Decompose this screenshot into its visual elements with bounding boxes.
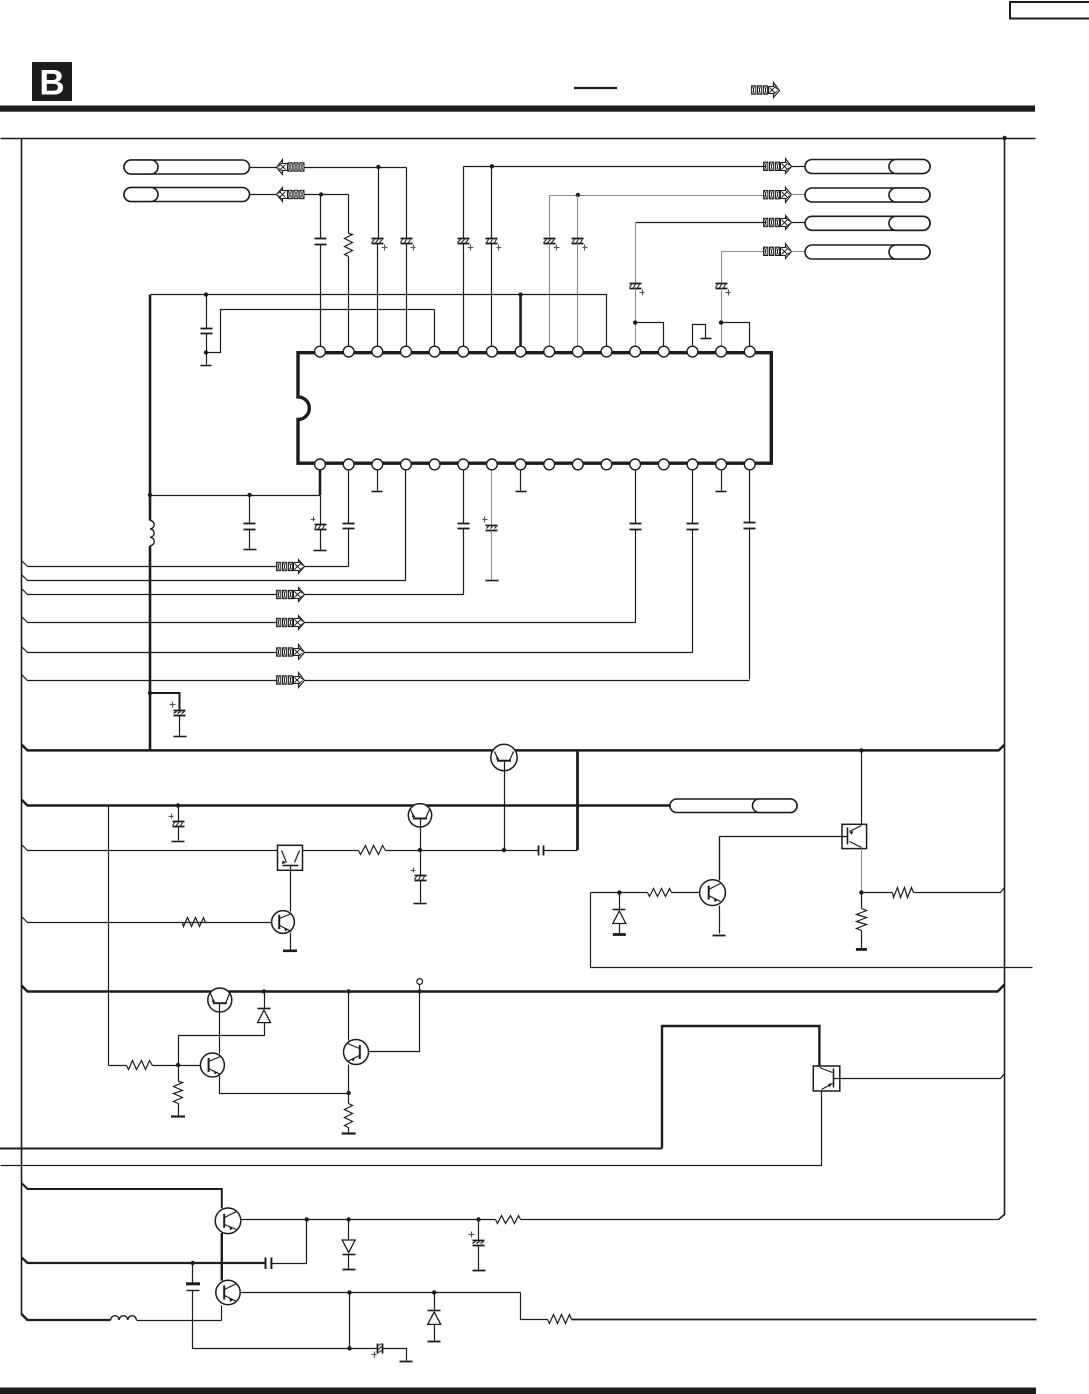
wire TP1 drop <box>369 992 420 1052</box>
IC1 pin 31 (bottom) <box>343 459 354 470</box>
wire C11 lower <box>249 530 251 549</box>
junction net-A pin3 <box>376 165 380 169</box>
capacitor C22 (electrolytic) <box>411 868 427 881</box>
connector P2 (left) <box>124 188 250 202</box>
wire C10 upper <box>206 295 208 329</box>
wire C19 branch <box>150 693 180 710</box>
junction opto2 / R5 <box>859 890 863 894</box>
wire coil to border <box>22 1314 111 1320</box>
terminal bar C15 <box>486 580 499 582</box>
optocoupler PC1 <box>278 845 303 870</box>
wire row6 <box>22 675 278 681</box>
ground bar D1 <box>613 933 626 936</box>
wire row4 <box>22 617 278 623</box>
connector P3 (right) <box>805 160 930 174</box>
resistor R7 <box>127 1061 153 1070</box>
connector P5 (right) <box>805 216 930 230</box>
wire Q4 base <box>672 892 700 894</box>
wire D1 upper <box>619 893 621 910</box>
resistor R1 <box>345 234 353 257</box>
wire W8 corner <box>521 1293 548 1320</box>
arrow A4 (to connector P4) <box>764 188 792 203</box>
wire pin8 bold <box>519 295 522 346</box>
inductor L2 <box>111 1316 137 1320</box>
wire C25 upper <box>192 1264 194 1284</box>
junction rail/495 <box>148 493 152 497</box>
wire pin13 branch <box>636 323 664 346</box>
wire D1 lower <box>619 924 621 934</box>
diode D4 <box>428 1311 441 1325</box>
capacitor C1 <box>315 239 327 245</box>
wire W7 right <box>521 1219 999 1221</box>
junction Y1 / opto2 <box>859 748 863 752</box>
junction W7 / D3 <box>346 1217 350 1221</box>
terminal bar C24 <box>473 1270 486 1272</box>
terminal bar C10 <box>201 365 212 367</box>
IC IC1 body <box>298 353 771 464</box>
resistor R4 <box>648 889 672 897</box>
arrow A9 (row4) <box>277 616 305 630</box>
wire pin10 lower <box>577 244 579 346</box>
IC1 pin 28 (bottom) <box>429 459 440 470</box>
wire Q2-Q1 link <box>421 850 505 852</box>
wire pin15 upper <box>721 252 723 284</box>
IC1 pin 15 (top) <box>716 346 727 357</box>
wire pin12 lower <box>635 289 637 346</box>
wire C11 upper <box>249 496 251 524</box>
wire C23 drop <box>272 1220 307 1264</box>
terminal bar C20 <box>172 841 185 843</box>
wire b14 upper <box>692 471 694 524</box>
IC1 pin 10 (top) <box>572 346 583 357</box>
connector P4 (right) <box>805 188 930 202</box>
wire row6 right <box>305 680 750 682</box>
stub b3 <box>372 471 383 492</box>
wire opto1 input <box>22 845 278 851</box>
transistor Q7 <box>344 1040 369 1065</box>
wire b14 lower <box>692 530 694 653</box>
terminal bar D3 <box>343 1269 356 1271</box>
wire C22 lower <box>420 881 422 903</box>
wire cap to bold drop <box>544 850 578 852</box>
capacitor C24 (electrolytic) <box>469 1232 485 1246</box>
capacitor C7 (electrolytic) <box>572 239 588 251</box>
test point TP1 <box>417 979 423 992</box>
wire Vcc rail <box>151 295 607 346</box>
wire A3 to P3 <box>792 166 806 168</box>
wire sense line <box>591 893 1033 968</box>
wire P2 to arrow <box>250 194 277 196</box>
junction C25 tap <box>191 1261 195 1265</box>
resistor R11 <box>548 1315 572 1324</box>
junction pin15/pin16 <box>719 320 723 324</box>
page header tab B <box>32 62 72 103</box>
wire Q7 emitter <box>348 1065 350 1094</box>
wire D4 upper <box>434 1293 436 1311</box>
wire pin7 upper <box>491 167 493 239</box>
wire Q3 emitter <box>290 933 292 950</box>
wire C25 lower <box>193 1291 350 1349</box>
junction pin12/pin13 <box>633 320 637 324</box>
wire W8 <box>241 1292 521 1294</box>
wire R9 upper <box>348 1094 350 1104</box>
resistor R8 <box>174 1082 183 1104</box>
wire mid rail x108 <box>108 806 110 1066</box>
IC1 pin 16 (top) <box>744 346 755 357</box>
wire row4 right <box>305 622 636 624</box>
junction C26 node <box>347 1346 351 1350</box>
wire bold drop <box>576 750 579 850</box>
transistor Q4 <box>700 880 726 906</box>
arrow A7 (row1) <box>277 560 305 574</box>
wire pin16 branch <box>722 323 750 346</box>
wire b12 upper <box>635 471 637 524</box>
capacitor C11 <box>244 524 256 530</box>
wire C26 left <box>350 1348 378 1350</box>
transistor Q8 <box>215 1208 241 1234</box>
ground bar R6 <box>856 948 867 951</box>
IC1 pin 19 (bottom) <box>687 459 698 470</box>
junction frame top / right border <box>1002 136 1006 140</box>
resistor R3 <box>183 918 206 927</box>
wire opto3 bottom <box>1 1092 822 1166</box>
junction Vcc / pin8 <box>518 292 522 296</box>
junction D1 node <box>617 890 621 894</box>
wire emitter to coil <box>137 1320 222 1322</box>
resistor R10 <box>496 1216 521 1224</box>
wire C24 lower <box>478 1246 480 1270</box>
wire net-G rail <box>722 251 767 253</box>
wire opto1 base drop <box>290 871 292 912</box>
arrow A11 (row6) <box>277 673 305 688</box>
stub b8 <box>516 471 527 492</box>
wire pin4 lower <box>406 244 408 346</box>
junction Q2 emitter node <box>418 848 422 852</box>
capacitor C14 <box>458 524 470 529</box>
wire Q2 cap upper <box>420 851 422 876</box>
capacitor C6 (electrolytic) <box>544 239 560 251</box>
junction emitter node <box>346 1091 350 1095</box>
IC1 pin 4 (top) <box>401 346 412 357</box>
terminal bar C22 <box>414 903 427 905</box>
junction Y4 / Q7 collector <box>346 989 350 993</box>
wire Q6 base <box>153 1065 201 1067</box>
wire b6 upper <box>463 471 465 524</box>
IC1 pin 32 (bottom) <box>315 459 326 470</box>
IC1 pin 17 (bottom) <box>744 459 755 470</box>
arrow A10 (row5) <box>277 645 305 660</box>
capacitor C9 (electrolytic) <box>716 284 731 296</box>
inductor L1 <box>150 521 154 546</box>
arrow A5 (to connector P5) <box>764 216 792 230</box>
wire b1 to rail <box>151 495 321 497</box>
wire R8 upper <box>178 1066 180 1082</box>
wire D2 upper <box>264 992 266 1009</box>
wire b16 lower <box>749 529 751 680</box>
arrow A8 (row3) <box>277 588 305 602</box>
optocoupler PC3 <box>813 1066 840 1091</box>
capacitor C3 (electrolytic) <box>401 239 416 251</box>
wire C12 upper <box>320 496 322 525</box>
wire D3 upper <box>348 1220 350 1241</box>
wire net-C corner <box>434 310 436 346</box>
IC1 pin 11 (top) <box>601 346 612 357</box>
wire pin15 lower <box>721 289 723 346</box>
junction Y2 / C20 <box>176 803 180 807</box>
wire R5 to border <box>914 888 1005 893</box>
IC1 pin 18 (bottom) <box>716 459 727 470</box>
junction W8 / drop <box>347 1290 351 1294</box>
capacitor C5 (electrolytic) <box>486 239 502 251</box>
wire pin9 lower <box>549 244 551 346</box>
capacitor C2 (electrolytic) <box>372 239 388 251</box>
wire opto3 out <box>840 1074 1005 1079</box>
wire net-B <box>304 194 349 196</box>
wire Q4 emitter <box>719 906 721 934</box>
wire b1 bold <box>319 470 322 495</box>
terminal bar Q4 <box>713 935 726 937</box>
wire Q8-Q9 bold <box>221 1233 223 1281</box>
terminal bar C19 <box>174 736 187 738</box>
wire row1 <box>22 561 278 567</box>
wire R8 lower <box>178 1104 180 1116</box>
wire feedback bold <box>22 1257 266 1263</box>
capacitor C26 (electrolytic, series) <box>372 1344 383 1358</box>
wire pin1 lower <box>320 245 322 346</box>
capacitor C19 (electrolytic) <box>170 702 186 716</box>
wire base node <box>591 892 648 894</box>
right border wire <box>999 139 1005 1220</box>
wire Q8 collector feed <box>22 1183 222 1208</box>
arrow A1 (to sheet, left) <box>277 160 305 175</box>
IC1 pin 3 (top) <box>372 346 383 357</box>
junction net-E pin10 <box>576 193 580 197</box>
capacitor C4 (electrolytic) <box>458 239 474 251</box>
wire W8 drop <box>349 1293 351 1349</box>
diode D1 <box>613 910 626 924</box>
IC1 pin 29 (bottom) <box>401 459 412 470</box>
optocoupler PC2 <box>842 824 867 848</box>
transistor Q9 <box>216 1280 240 1304</box>
terminal bar C12 <box>314 550 327 552</box>
IC1 pin 30 (bottom) <box>372 459 383 470</box>
wire net-D rail <box>464 166 767 168</box>
junction Y4 / D2 <box>262 989 266 993</box>
capacitor C10 <box>201 329 213 334</box>
wire pin12 upper <box>635 223 637 284</box>
header thick rule <box>0 106 1035 112</box>
wire cap link <box>505 850 539 852</box>
wire Q5 base drop <box>219 1004 221 1054</box>
wire row5 <box>22 647 278 653</box>
wire D3 lower <box>348 1255 350 1269</box>
junction Q6 base node <box>176 1063 180 1067</box>
capacitor C18 <box>744 523 756 529</box>
wire pin6 lower <box>463 244 465 346</box>
wire b12 lower <box>635 530 637 623</box>
IC1 pin 27 (bottom) <box>458 459 469 470</box>
capacitor C25 <box>186 1284 200 1291</box>
diode D3 <box>342 1240 355 1255</box>
wire b7 upper <box>491 471 493 526</box>
wire R6 upper <box>861 893 863 909</box>
wire pin2 upper <box>348 195 350 234</box>
IC1 pin 13 (top) <box>658 346 669 357</box>
transistor Q6 <box>200 1053 224 1077</box>
wire b2 upper <box>348 471 350 524</box>
IC1 pin 12 (top) <box>630 346 641 357</box>
schematic frame top line <box>1 138 1036 140</box>
wire bus Y4 <box>22 985 1005 992</box>
terminal bar C26 <box>400 1361 413 1363</box>
top-right revision box <box>1010 2 1089 19</box>
IC1 pin 20 (bottom) <box>658 459 669 470</box>
wire A5 to P5 <box>792 222 806 224</box>
arrow A3 (to connector P3) <box>764 159 792 174</box>
wire output long <box>572 1319 1037 1321</box>
wire pin10 upper <box>577 196 579 239</box>
wire pin2 lower <box>348 257 350 346</box>
IC1 pin 21 (bottom) <box>630 459 641 470</box>
wire A4 to P4 <box>792 194 806 196</box>
connector P6 (right) <box>805 245 930 259</box>
wire opto1 out <box>303 850 359 852</box>
capacitor C17 <box>687 524 699 530</box>
junction rail/C19 <box>148 691 152 695</box>
junction C11 tap <box>247 493 251 497</box>
wire row5 right <box>305 652 693 654</box>
wire Q4 collector <box>719 838 721 881</box>
IC1 pin 26 (bottom) <box>487 459 498 470</box>
capacitor C20 (electrolytic) <box>169 814 185 827</box>
resistor R9 <box>345 1104 353 1128</box>
junction C10 / net-C <box>204 350 208 354</box>
wire relay loop top <box>662 1026 819 1149</box>
pin14 shield stub <box>693 325 712 346</box>
wire Q6 emitter <box>220 1076 349 1094</box>
wire relay loop bottom <box>0 1148 662 1150</box>
wire left rail lower (bold) <box>149 546 152 752</box>
wire net-E rail <box>550 195 767 197</box>
IC1 pin 6 (top) <box>458 346 469 357</box>
wire b2 lower <box>348 529 350 567</box>
capacitor C16 <box>630 524 642 530</box>
capacitor C8 (electrolytic) <box>630 284 645 296</box>
wire pin3 lower <box>377 244 379 346</box>
capacitor C23 (coupling) <box>266 1258 272 1270</box>
IC1 pin 25 (bottom) <box>515 459 526 470</box>
wire b7 lower <box>491 531 493 580</box>
wire to R5 <box>862 892 893 894</box>
capacitor C12 (electrolytic) <box>311 517 327 530</box>
wire W7 <box>241 1219 496 1221</box>
terminal bar R9 <box>342 1132 356 1134</box>
junction net-B pin1 <box>319 192 323 196</box>
wire row1 right <box>305 566 349 568</box>
wire R6 lower <box>861 931 863 949</box>
transistor Q5 <box>208 988 232 1012</box>
wire C24 upper <box>478 1220 480 1241</box>
wire P1 to arrow <box>250 167 277 169</box>
wire R7 corner <box>109 1065 127 1067</box>
wire pin9 upper <box>549 196 551 239</box>
wire A6 to P6 <box>792 251 806 253</box>
terminal bar D4 <box>428 1341 441 1343</box>
resistor R2 <box>359 846 386 855</box>
junction W7 / C23 <box>305 1217 309 1221</box>
arrow A6 (to connector P6) <box>764 244 792 259</box>
transistor Q1 <box>491 744 517 850</box>
wire opto2 top <box>861 751 863 825</box>
wire R9 lower <box>348 1128 350 1133</box>
wire row3 right <box>305 594 464 596</box>
junction W7 / C24 <box>476 1217 480 1221</box>
IC1 pin 9 (top) <box>544 346 555 357</box>
wire net-A <box>304 167 407 169</box>
wire C20 lower <box>178 827 180 841</box>
footer thick rule <box>0 1388 1036 1394</box>
capacitor C13 <box>343 524 355 529</box>
wire Q3 base <box>22 917 272 923</box>
wire pin3 upper <box>378 168 380 239</box>
IC1 pin 24 (bottom) <box>544 459 555 470</box>
diode D2 <box>258 1009 271 1023</box>
capacitor C21 (coupling) <box>539 846 544 856</box>
junction TP1 / Y4 <box>418 989 422 993</box>
wire Q9 emitter <box>221 1306 223 1321</box>
IC1 pin 5 (top) <box>429 346 440 357</box>
svg-text:B: B <box>39 64 64 103</box>
wire pin4 upper <box>406 168 408 239</box>
ground bar Q3 <box>283 949 297 952</box>
header sheet-reference arrow <box>752 83 780 98</box>
wire row2 <box>22 471 406 581</box>
wire b16 upper <box>749 471 751 523</box>
capacitor C15 (electrolytic) <box>483 517 498 531</box>
junction W8 / D4 <box>432 1290 436 1294</box>
wire opto2 left <box>720 837 843 881</box>
wire Q7 collector <box>348 992 350 1041</box>
resistor R6 <box>857 909 867 931</box>
IC1 pin 1 (top) <box>315 346 326 357</box>
wire D2 lower <box>179 1023 265 1066</box>
wire net-F rail <box>636 222 767 224</box>
wire C20 upper <box>178 806 180 822</box>
wire b6 lower <box>463 529 465 595</box>
wire bus Y2 <box>22 800 671 806</box>
wire net-C <box>207 310 435 353</box>
wire R2 to Q2 <box>386 850 421 852</box>
IC1 pin 2 (top) <box>343 346 354 357</box>
wire net-D top <box>463 167 465 239</box>
junction Vcc / C10 <box>204 292 208 296</box>
IC1 pin 8 (top) <box>515 346 526 357</box>
IC1 pin 7 (top) <box>487 346 498 357</box>
wire left rail upper (bold) <box>149 295 152 521</box>
wire C26 right <box>383 1349 407 1361</box>
connector P7 (mid) <box>670 799 797 813</box>
header title dash <box>574 87 617 89</box>
wire pin7 lower <box>491 244 493 346</box>
transistor Q3 <box>272 911 295 934</box>
IC1 pin 23 (bottom) <box>572 459 583 470</box>
left border wire <box>22 139 28 1321</box>
connector P1 (left) <box>124 160 250 174</box>
wire C10 lower <box>206 334 208 365</box>
arrow A2 (to sheet, left) <box>277 188 305 202</box>
stub b15 <box>716 471 727 492</box>
transistor Q2 <box>408 804 431 851</box>
